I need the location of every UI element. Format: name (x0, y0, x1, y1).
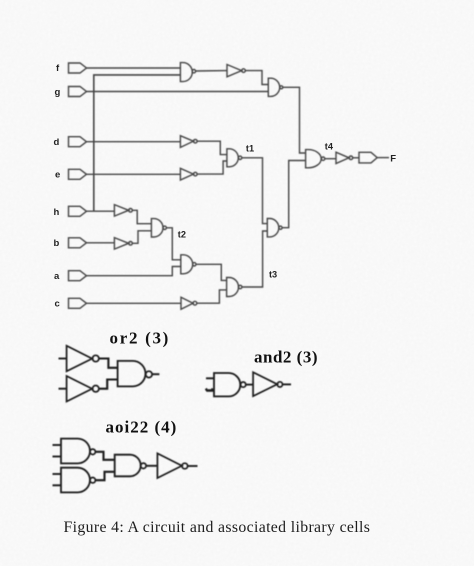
svg-text:F: F (390, 154, 396, 165)
aoi22 nand2 (61, 468, 90, 493)
and2 wire nand to inverter (246, 384, 253, 386)
svg-text:b: b (54, 238, 60, 249)
bubble U6 (239, 285, 242, 288)
input port c (69, 298, 87, 308)
wire V3 to U3 (197, 161, 227, 174)
and2 nand bubble (241, 382, 246, 387)
wire V7 to output port (353, 157, 359, 159)
inverter V1 (227, 65, 242, 77)
nand U1 (180, 63, 192, 82)
svg-text:t1: t1 (246, 144, 254, 154)
wire V4 to U4 (132, 210, 151, 223)
inverter V5 (114, 238, 128, 250)
wire t2 to U5 (166, 228, 180, 260)
wire U5 to U6 (196, 264, 227, 280)
svg-text:g: g (55, 87, 61, 98)
bubble U8 (321, 157, 324, 160)
or2 nand bubble (146, 371, 152, 377)
bubble V4 (129, 209, 133, 213)
inverter V4 (114, 205, 128, 217)
bubble V5 (129, 242, 133, 246)
svg-text:c: c (55, 299, 60, 310)
aoi22 inverter bubble (182, 463, 188, 469)
aoi22 nand1 bubble (90, 449, 95, 454)
svg-text:a: a (54, 271, 60, 282)
svg-text:aoi22 (4): aoi22 (4) (106, 418, 178, 437)
or2 nand (118, 361, 146, 387)
wire b to inv V5 (87, 242, 115, 244)
wire a to U5 (87, 267, 181, 276)
nand U8 t4 (306, 150, 322, 168)
wire V5 to U4 (132, 231, 151, 244)
input port g (69, 87, 87, 97)
aoi22 nand2 input stub 1 (53, 473, 62, 475)
svg-text:t3: t3 (269, 269, 277, 279)
wire t3 to U7 (242, 231, 267, 287)
wire V6 to U6 (197, 290, 227, 303)
nand U3 t1 (227, 149, 238, 167)
aoi22 nand3 (115, 455, 141, 477)
wire h to inv V4 (87, 210, 115, 212)
bubble U1 (192, 70, 195, 73)
nand U5 (181, 255, 193, 274)
aoi22 nand3 bubble (141, 463, 146, 468)
aoi22 nand2 bubble (90, 478, 95, 483)
nand U2 (268, 78, 279, 96)
aoi22 wire nand1 to nand3 (95, 452, 114, 460)
input port b (69, 238, 87, 248)
and2 inverter bubble (277, 382, 282, 387)
wire V2 to U3 (197, 141, 227, 154)
input port f (69, 63, 87, 73)
or2 cell: input stub 1 (59, 358, 67, 360)
svg-text:or2 (3): or2 (3) (110, 329, 171, 348)
and2 nand input stub 1 (206, 377, 214, 379)
bubble V1 (242, 69, 246, 73)
wire f to U1 (87, 67, 181, 69)
nand U4 t2 (151, 219, 163, 237)
svg-text:d: d (54, 137, 60, 148)
input port a (69, 271, 87, 281)
bubble V3 (194, 172, 198, 176)
wire V1 to U2 (245, 71, 268, 85)
aoi22 inverter (157, 453, 182, 478)
wire c to inv V6 (87, 302, 182, 304)
aoi22 wire nand3 to inverter (146, 465, 157, 467)
bubble V2 (194, 139, 198, 143)
and2 nand (214, 373, 240, 396)
bubble U7 (279, 226, 282, 229)
aoi22 output stub (188, 465, 198, 467)
svg-text:t2: t2 (178, 230, 186, 240)
bubble V7 (349, 156, 353, 160)
wire t4 to inv V7 (325, 158, 336, 160)
or2 inverter 1 bubble (93, 355, 99, 361)
and2 output stub (283, 383, 292, 385)
or2 inverter 2 (67, 376, 93, 402)
aoi22 nand1 input stub 2 (53, 456, 62, 458)
svg-text:h: h (54, 207, 60, 218)
nand U7 (267, 219, 279, 237)
svg-text:and2 (3): and2 (3) (254, 348, 318, 367)
inverter V2 (180, 136, 193, 148)
and2 nand input stub 2 (206, 389, 214, 391)
bubble U4 (163, 226, 166, 229)
wire t1 to U7 (242, 158, 267, 224)
or2 output stub (152, 373, 159, 375)
or2 inverter 1 (67, 346, 93, 372)
or2 inverter 2 bubble (93, 386, 99, 392)
wire U7 to U8 (282, 161, 306, 228)
bubble V6 (193, 301, 197, 305)
wire h riser to U1 (94, 75, 181, 211)
aoi22 wire nand2 to nand3 (95, 472, 114, 480)
and2 inverter (253, 372, 277, 396)
inverter V3 (180, 168, 193, 180)
inverter V6 (181, 297, 193, 309)
svg-text:Figure 4: A circuit and associ: Figure 4: A circuit and associated libra… (64, 519, 371, 536)
bubble U3 (238, 156, 241, 159)
input port h (69, 206, 87, 216)
wire to F label (377, 157, 389, 159)
svg-text:e: e (55, 170, 60, 181)
bubble U2 (280, 86, 283, 89)
input port e (69, 169, 87, 179)
wire e to inv V3 (87, 173, 181, 175)
aoi22 nand1 (61, 439, 90, 464)
output port F (359, 152, 377, 163)
wire U1 to inv V1 (196, 70, 227, 72)
or2 wire inv1 to nand (99, 359, 118, 368)
wire d to inv V2 (87, 141, 181, 143)
aoi22 nand1 input stub 1 (53, 444, 62, 446)
bubble U5 (193, 263, 196, 266)
svg-text:t4: t4 (325, 141, 334, 151)
input port d (69, 137, 87, 147)
wire g to U2 (87, 91, 269, 93)
inverter V7 (336, 152, 349, 163)
or2 cell: input stub 2 (59, 388, 67, 390)
wire U2 to U8 (283, 87, 306, 153)
or2 wire inv2 to nand (99, 380, 118, 389)
nand U6 t3 (227, 278, 239, 297)
aoi22 nand2 input stub 2 (53, 484, 62, 486)
